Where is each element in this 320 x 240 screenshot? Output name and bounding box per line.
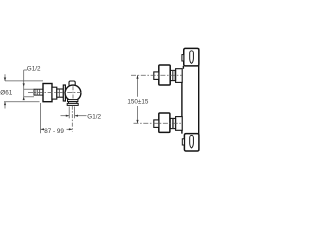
svg-text:G1/2: G1/2 [27, 66, 41, 73]
svg-text:87 - 99: 87 - 99 [44, 128, 64, 135]
svg-text:150±15: 150±15 [127, 98, 148, 105]
svg-text:Ø61: Ø61 [0, 89, 12, 96]
svg-text:G1/2: G1/2 [87, 113, 101, 120]
